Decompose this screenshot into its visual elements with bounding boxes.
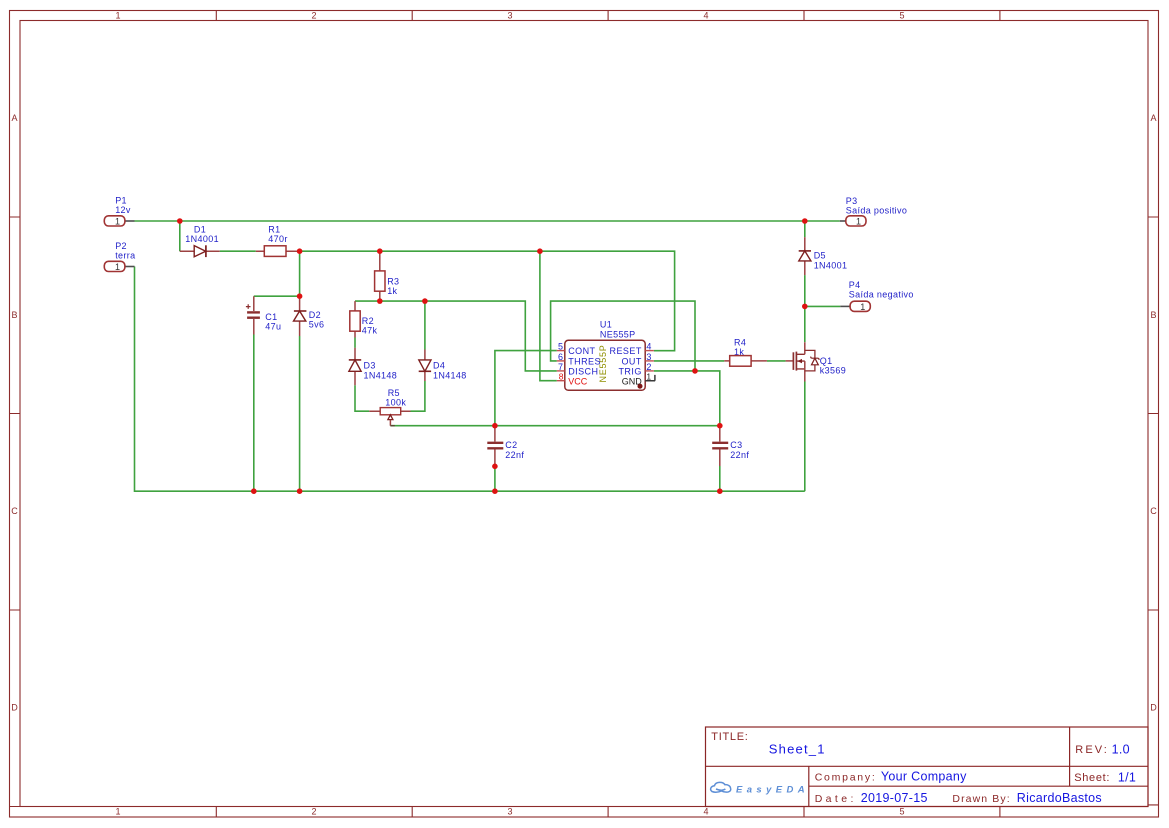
node: ground rail C3 <box>717 488 723 494</box>
svg-text:C1: C1 <box>265 312 277 322</box>
svg-text:NE555P: NE555P <box>600 329 636 339</box>
wire: THRES up-over to TRIG junction <box>551 301 695 371</box>
junction dots <box>177 218 808 494</box>
U1 pin 4 RESET <box>610 342 654 357</box>
svg-text:5: 5 <box>558 342 563 352</box>
svg-text:D: D <box>1150 703 1157 713</box>
wire: D1 to R1 <box>220 250 256 252</box>
node: C3 top <box>717 423 723 429</box>
diode D3 1N4148 <box>349 348 397 386</box>
capacitor C1 47u <box>246 296 281 334</box>
svg-text:D2: D2 <box>309 310 321 320</box>
resistor R4 1k <box>724 337 767 366</box>
svg-text:1N4001: 1N4001 <box>185 234 219 244</box>
potentiometer R5 100k <box>369 388 410 426</box>
node: P4/D5/Q1 <box>802 304 808 310</box>
zener diode D2 5v6 <box>294 296 325 336</box>
svg-text:C: C <box>1150 506 1157 516</box>
U1 pin 3 OUT <box>621 352 653 367</box>
connector P1 <box>104 195 134 226</box>
svg-text:D3: D3 <box>364 361 376 371</box>
node: ground rail C2 <box>492 488 498 494</box>
svg-text:1N4001: 1N4001 <box>814 260 848 270</box>
node: C2 lead mid <box>492 464 498 470</box>
svg-text:5: 5 <box>899 807 904 817</box>
svg-text:4: 4 <box>646 342 651 352</box>
svg-text:Company:: Company: <box>815 771 877 783</box>
EasyEDA logo <box>711 782 809 795</box>
wire: P4 node down to Q1 drain <box>804 306 806 342</box>
U1 pin 8 VCC <box>557 372 588 387</box>
svg-text:1: 1 <box>860 302 865 312</box>
connector P2 <box>104 241 135 272</box>
svg-text:D5: D5 <box>814 251 826 261</box>
WIRES <box>135 221 841 491</box>
svg-text:4: 4 <box>703 807 708 817</box>
svg-text:470r: 470r <box>268 234 287 244</box>
node: top rail / D5 <box>802 218 808 224</box>
svg-text:DISCH: DISCH <box>568 367 598 377</box>
wire: Q1 source down to ground rail <box>804 382 806 492</box>
connector P3 <box>840 196 907 227</box>
svg-text:CONT: CONT <box>568 346 595 356</box>
svg-text:2019-07-15: 2019-07-15 <box>861 791 928 805</box>
svg-text:R4: R4 <box>734 337 746 347</box>
wire: R1 junction down to C1/D2 node <box>299 251 301 296</box>
svg-text:Your Company: Your Company <box>881 769 967 783</box>
svg-text:1: 1 <box>115 262 120 272</box>
svg-text:1: 1 <box>115 807 120 817</box>
U1 pin 5 CONT <box>557 342 596 357</box>
node: TRIG/THRES <box>692 368 698 374</box>
svg-text:REV:: REV: <box>1075 744 1109 756</box>
svg-text:8: 8 <box>559 372 564 382</box>
transistor Q1 k3569 MOSFET <box>786 342 846 381</box>
svg-text:TITLE:: TITLE: <box>711 731 748 743</box>
svg-text:5: 5 <box>899 11 904 21</box>
resistor R1 470r <box>256 225 300 257</box>
wire: OUT to R4 <box>654 360 725 362</box>
svg-text:Date:: Date: <box>815 793 857 805</box>
svg-text:P2: P2 <box>115 241 127 251</box>
svg-text:1: 1 <box>115 11 120 21</box>
wire: R2 bottom to D3 top <box>354 338 356 348</box>
svg-text:P3: P3 <box>846 196 858 206</box>
wire: D4 top to node rail <box>424 301 426 349</box>
svg-text:C2: C2 <box>505 440 517 450</box>
capacitor C3 22nf <box>712 426 749 466</box>
U1 pin 6 THRES <box>557 352 601 367</box>
svg-text:100k: 100k <box>385 398 406 408</box>
svg-text:D4: D4 <box>433 361 445 371</box>
wire: C1 top horizontal <box>254 295 300 297</box>
wire: D5 top from rail <box>804 221 806 237</box>
svg-text:47u: 47u <box>265 322 281 332</box>
svg-text:P1: P1 <box>115 195 127 205</box>
node: R3 top <box>377 248 383 254</box>
svg-text:5v6: 5v6 <box>309 320 325 330</box>
diode D4 1N4148 <box>419 350 467 382</box>
wire: CONT to C2 node <box>495 351 557 426</box>
resistor R3 1k <box>375 251 400 301</box>
svg-text:Drawn By:: Drawn By: <box>952 793 1010 805</box>
wire: P4 node to P4 pin <box>805 305 841 307</box>
svg-text:1: 1 <box>646 372 651 382</box>
wire: C2 node to C3 node <box>495 425 720 427</box>
svg-text:A: A <box>1150 113 1156 123</box>
wire: P2 down and bottom rail <box>135 267 805 492</box>
wire: R5 right to D4 bottom <box>411 381 425 411</box>
wire: R4 to Q1 gate <box>767 360 786 362</box>
U1 pin 7 DISCH <box>557 362 599 377</box>
wire: R1 right rail to RESET corner <box>300 251 675 351</box>
node: R3 bottom <box>377 298 383 304</box>
svg-text:Saída negativo: Saída negativo <box>849 290 914 300</box>
svg-text:7: 7 <box>558 362 563 372</box>
svg-text:12v: 12v <box>115 205 131 215</box>
svg-text:C3: C3 <box>730 440 742 450</box>
svg-text:P4: P4 <box>849 280 861 290</box>
svg-text:Sheet:: Sheet: <box>1074 772 1110 784</box>
svg-text:3: 3 <box>646 352 651 362</box>
svg-text:1: 1 <box>856 217 861 227</box>
wire: R5 wiper to C2 top rail <box>390 425 495 427</box>
svg-text:RESET: RESET <box>610 346 642 356</box>
wire: TRIG right then down to C3 <box>654 371 720 426</box>
svg-text:U1: U1 <box>600 320 612 330</box>
svg-text:B: B <box>1150 310 1156 320</box>
wire: C2 bottom to ground rail <box>494 466 496 491</box>
svg-text:THRES: THRES <box>568 356 601 366</box>
svg-text:EasyEDA: EasyEDA <box>736 784 809 795</box>
svg-text:Q1: Q1 <box>820 356 833 366</box>
svg-text:1: 1 <box>115 217 120 227</box>
node: P1 rail / D1 drop <box>177 218 183 224</box>
svg-text:Sheet_1: Sheet_1 <box>769 741 826 756</box>
svg-text:TRIG: TRIG <box>618 367 641 377</box>
U1 pin 2 TRIG <box>618 362 653 377</box>
node: ground rail D2 <box>297 488 303 494</box>
svg-text:OUT: OUT <box>621 356 641 366</box>
node: R1 out <box>297 248 303 254</box>
svg-text:R2: R2 <box>362 316 374 326</box>
svg-text:VCC: VCC <box>568 376 588 386</box>
wire: D3 bottom to R5 left <box>355 385 369 411</box>
node: D4 top <box>422 298 428 304</box>
capacitor C2 22nf <box>487 426 524 467</box>
svg-text:R3: R3 <box>387 276 399 286</box>
diode D1 1N4001 <box>180 225 220 258</box>
svg-text:Saída positivo: Saída positivo <box>846 206 907 216</box>
svg-text:4: 4 <box>703 11 708 21</box>
svg-text:1.0: 1.0 <box>1112 742 1130 756</box>
node: VCC drop <box>537 248 543 254</box>
connector P4 <box>840 280 913 312</box>
wire: drop from top rail to D1 <box>179 221 181 251</box>
svg-text:RicardoBastos: RicardoBastos <box>1017 791 1102 805</box>
svg-text:22nf: 22nf <box>505 450 524 460</box>
svg-text:3: 3 <box>507 807 512 817</box>
resistor R2 47k <box>350 301 378 337</box>
U1 pin 1 GND <box>622 372 655 389</box>
wire: C1 bottom to ground rail <box>253 335 255 492</box>
svg-text:22nf: 22nf <box>730 450 749 460</box>
svg-text:1k: 1k <box>387 286 397 296</box>
op-amp U1 NE555P body <box>565 320 645 391</box>
wire: D5 bottom to P4 node <box>804 275 806 306</box>
svg-text:2: 2 <box>311 11 316 21</box>
svg-text:3: 3 <box>507 11 512 21</box>
title block <box>706 727 1149 807</box>
svg-text:D: D <box>11 703 18 713</box>
svg-text:1N4148: 1N4148 <box>433 370 467 380</box>
node: ground rail C1 <box>251 488 257 494</box>
diode D5 1N4001 <box>799 237 848 275</box>
svg-text:terra: terra <box>115 251 135 261</box>
svg-text:6: 6 <box>558 352 563 362</box>
wire: C3 bottom to ground rail <box>719 466 721 491</box>
wire: +12V top rail P1 to P3 <box>135 220 840 222</box>
svg-text:47k: 47k <box>362 326 378 336</box>
svg-text:B: B <box>11 310 17 320</box>
node: C2 top <box>492 423 498 429</box>
svg-text:1N4148: 1N4148 <box>364 370 398 380</box>
wire: node rail y301 left (DISCH net) <box>355 301 557 371</box>
wire: D2 bottom to ground rail <box>299 336 301 491</box>
svg-text:1/1: 1/1 <box>1118 770 1136 784</box>
wire: VCC drop from rail <box>540 251 557 381</box>
svg-text:k3569: k3569 <box>820 366 846 376</box>
svg-text:2: 2 <box>646 362 651 372</box>
svg-text:A: A <box>11 113 17 123</box>
svg-text:2: 2 <box>311 807 316 817</box>
node: C1/D2 <box>297 293 303 299</box>
svg-text:C: C <box>11 506 18 516</box>
svg-text:R5: R5 <box>388 388 400 398</box>
